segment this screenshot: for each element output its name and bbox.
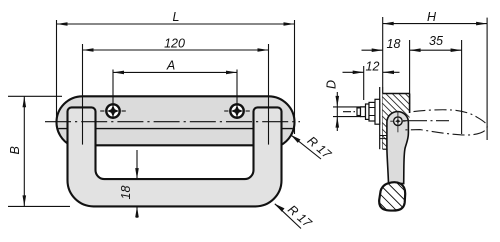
horizontal centerline xyxy=(45,121,300,123)
svg-text:18: 18 xyxy=(387,37,401,51)
svg-text:R 17: R 17 xyxy=(285,202,315,231)
dimension D xyxy=(325,80,366,131)
svg-text:D: D xyxy=(325,80,339,89)
pivot centerline left (120 ext) xyxy=(82,44,84,145)
dimension 12 xyxy=(343,60,400,100)
screw left xyxy=(100,104,126,117)
base plate xyxy=(57,96,295,145)
dimension B xyxy=(8,96,70,206)
bracket lug edges xyxy=(380,135,387,137)
ghost handle raised (phantom) xyxy=(403,110,487,135)
pivot screw xyxy=(390,112,405,133)
svg-text:12: 12 xyxy=(366,60,380,74)
svg-text:L: L xyxy=(173,10,180,24)
dimension 18 (grip thickness) xyxy=(119,150,139,218)
bolt stack xyxy=(343,99,380,124)
svg-text:120: 120 xyxy=(164,37,185,51)
svg-text:A: A xyxy=(166,58,175,72)
dimension A xyxy=(113,58,237,119)
svg-text:35: 35 xyxy=(429,34,443,48)
leader R17 lower xyxy=(275,202,315,231)
bracket block hatched xyxy=(383,94,410,150)
svg-text:18: 18 xyxy=(119,186,133,200)
svg-text:B: B xyxy=(8,146,22,154)
pivot centerline right (120 ext) xyxy=(268,44,270,145)
handle loop U-shape xyxy=(68,107,282,206)
leader R17 upper xyxy=(291,134,335,163)
dimension 120 xyxy=(83,37,269,52)
plate step edge xyxy=(59,128,293,130)
panel (mounting wall) xyxy=(380,87,383,149)
dimension L xyxy=(57,10,295,134)
plate bottom edge between legs xyxy=(68,144,281,146)
dimension H xyxy=(383,10,487,140)
grip foot (sectioned end) xyxy=(379,182,405,210)
svg-text:H: H xyxy=(427,10,437,24)
screw right xyxy=(224,104,250,117)
grip (boss + lever) xyxy=(387,112,409,184)
dimension 18 / 35 (side) xyxy=(362,34,462,134)
